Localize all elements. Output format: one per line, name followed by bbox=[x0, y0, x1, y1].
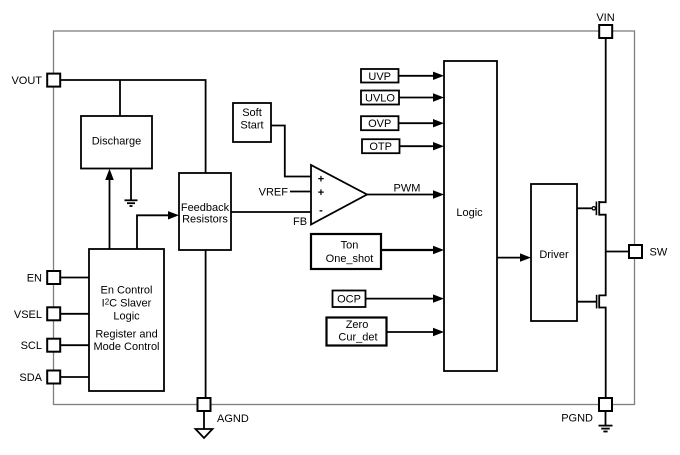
svg-text:OTP: OTP bbox=[369, 141, 392, 153]
svg-text:VOUT: VOUT bbox=[11, 75, 42, 87]
svg-text:OCP: OCP bbox=[337, 294, 361, 306]
svg-text:EN: EN bbox=[27, 273, 42, 285]
svg-text:One_shot: One_shot bbox=[326, 253, 374, 265]
svg-text:VIN: VIN bbox=[596, 12, 614, 24]
svg-text:SW: SW bbox=[650, 247, 668, 259]
svg-text:Driver: Driver bbox=[539, 249, 569, 261]
svg-text:AGND: AGND bbox=[217, 413, 249, 425]
svg-text:PGND: PGND bbox=[561, 413, 593, 425]
svg-text:PWM: PWM bbox=[394, 183, 421, 195]
svg-text:VSEL: VSEL bbox=[14, 309, 42, 321]
svg-text:Soft: Soft bbox=[242, 107, 262, 119]
svg-text:I2C Slaver: I2C Slaver bbox=[102, 297, 152, 309]
svg-text:FB: FB bbox=[293, 216, 307, 228]
svg-text:En Control: En Control bbox=[101, 285, 153, 297]
svg-text:Logic: Logic bbox=[456, 207, 483, 219]
svg-text:Ton: Ton bbox=[341, 240, 359, 252]
svg-text:OVP: OVP bbox=[368, 118, 391, 130]
svg-text:SCL: SCL bbox=[21, 340, 42, 352]
svg-text:Register and: Register and bbox=[95, 329, 157, 341]
svg-text:+: + bbox=[318, 174, 324, 186]
svg-text:Feedback: Feedback bbox=[181, 202, 230, 214]
svg-text:Resistors: Resistors bbox=[182, 214, 228, 226]
svg-text:Zero: Zero bbox=[346, 319, 369, 331]
svg-text:Start: Start bbox=[240, 120, 263, 132]
svg-text:+: + bbox=[318, 187, 324, 199]
svg-text:UVP: UVP bbox=[368, 71, 391, 83]
svg-text:Mode Control: Mode Control bbox=[93, 341, 159, 353]
svg-text:UVLO: UVLO bbox=[365, 93, 395, 105]
svg-text:SDA: SDA bbox=[19, 372, 42, 384]
svg-text:Cur_det: Cur_det bbox=[338, 332, 377, 344]
svg-text:Logic: Logic bbox=[113, 310, 140, 322]
svg-text:Discharge: Discharge bbox=[92, 136, 142, 148]
svg-text:-: - bbox=[319, 205, 323, 217]
svg-text:VREF: VREF bbox=[259, 187, 289, 199]
